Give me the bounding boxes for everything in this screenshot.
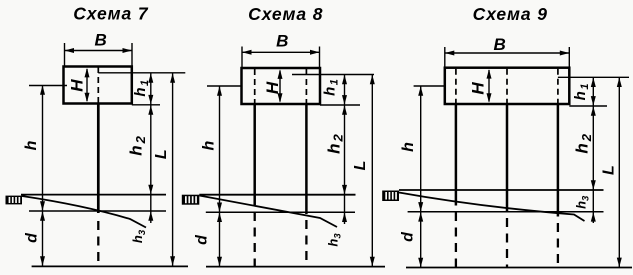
svg-text:h: h	[23, 140, 40, 150]
label h1 (schema 7)	[132, 78, 151, 96]
dimension L (schema 9)	[617, 77, 622, 267]
dimension H arrow (schema 9)	[487, 69, 492, 103]
label L (schema 7)	[153, 149, 170, 159]
svg-text:Н: Н	[263, 81, 282, 94]
label h (schema 9)	[400, 142, 417, 152]
label h3 (schema 8)	[326, 233, 344, 247]
pile head level line (schema 8)	[292, 74, 374, 76]
pile cap box (schema 8)	[242, 68, 321, 104]
left pile axis dashed below ground (schema 9)	[455, 212, 457, 267]
pile tip base line (schema 7)	[32, 265, 188, 267]
pile shaft solid (schema 7)	[97, 104, 100, 214]
dimension B (schema 7) line and arrows	[65, 48, 133, 53]
pile head level line (schema 9)	[558, 76, 629, 78]
dimension h extension line (schema 7)	[29, 85, 67, 87]
right pile axis dashed below ground (schema 9)	[557, 223, 559, 267]
label B (schema 8)	[276, 32, 288, 51]
dimension B (schema 9) extension ticks	[445, 47, 570, 68]
dimension d (schema 8)	[217, 212, 222, 266]
label h2 (schema 9)	[572, 132, 593, 154]
svg-text:В: В	[494, 35, 506, 54]
pile tip base line (schema 9)	[406, 267, 632, 269]
label h (schema 7)	[23, 140, 40, 150]
svg-text:В: В	[94, 31, 106, 50]
left pile axis dashed below ground (schema 8)	[254, 212, 256, 267]
dimension B (schema 7) extension ticks	[65, 43, 133, 67]
svg-text:Н: Н	[469, 82, 488, 95]
pile axis dashed inside box (schema 7)	[97, 67, 99, 103]
dimension h (schema 8)	[217, 86, 222, 212]
dimension h3 arrow (schema 8)	[342, 213, 347, 223]
svg-text:Схема 8: Схема 8	[248, 4, 323, 24]
right pile shaft solid (schema 9)	[557, 104, 560, 217]
label d (schema 8)	[194, 234, 211, 245]
dimension h1 (schema 7)	[148, 73, 153, 105]
label L (schema 8)	[352, 161, 369, 171]
middle pile shaft solid (schema 9)	[506, 104, 509, 212]
dimension h2 (schema 9)	[591, 106, 596, 223]
label d (schema 7)	[23, 232, 40, 243]
svg-text:L: L	[153, 149, 170, 159]
svg-text:L: L	[600, 165, 617, 175]
dimension d (schema 9)	[418, 212, 423, 268]
left pile axis dashed inside box (schema 8)	[254, 69, 256, 104]
pile cap box (schema 9)	[445, 68, 570, 104]
svg-text:Н: Н	[67, 79, 86, 92]
label h1 (schema 8)	[322, 78, 341, 96]
label h3 (schema 9)	[574, 195, 592, 209]
planning datum line (schema 8)	[206, 211, 355, 213]
dimension h2 (schema 8)	[342, 105, 347, 224]
cap bottom extension line (schema 7)	[132, 104, 160, 106]
left pile shaft solid (schema 8)	[253, 104, 256, 205]
label h2 (schema 8)	[324, 132, 345, 154]
label H (schema 9)	[469, 82, 488, 95]
dimension h1 (schema 9)	[591, 77, 596, 106]
svg-text:L: L	[352, 161, 369, 171]
title Схема 7	[73, 4, 149, 24]
dimension L (schema 7)	[170, 73, 175, 266]
label L (schema 9)	[600, 165, 617, 175]
dimension h3 arrow (schema 9)	[591, 212, 596, 222]
dimension B (schema 9) line and arrows	[445, 51, 570, 56]
natural ground slope line (schema 8)	[199, 196, 337, 228]
dimension H arrow (schema 7)	[85, 68, 90, 102]
middle pile axis dashed inside box (schema 9)	[506, 69, 508, 104]
svg-text:d: d	[194, 234, 211, 245]
label B (schema 9)	[494, 35, 506, 54]
dimension h3 arrow (schema 7)	[148, 211, 153, 221]
svg-text:d: d	[23, 232, 40, 243]
left pile axis dashed inside box (schema 9)	[455, 69, 457, 104]
planning datum line (schema 7)	[29, 210, 166, 212]
dimension h (schema 9)	[418, 86, 423, 212]
label H (schema 8)	[263, 81, 282, 94]
dimension L (schema 8)	[370, 75, 375, 267]
svg-text:d: d	[400, 231, 417, 242]
natural ground slope line (schema 7)	[22, 196, 146, 228]
right pile axis dashed below ground (schema 8)	[305, 220, 307, 267]
dimension h extension line (schema 8)	[207, 85, 242, 87]
label h2 (schema 7)	[127, 134, 148, 156]
title Схема 9	[473, 4, 548, 24]
dimension B (schema 8) extension ticks	[242, 47, 320, 69]
label H (schema 7)	[67, 79, 86, 92]
right pile axis dashed inside box (schema 9)	[557, 69, 559, 104]
cap bottom extension line (schema 9)	[569, 105, 607, 107]
label h1 (schema 9)	[572, 82, 591, 100]
svg-text:Схема 9: Схема 9	[473, 4, 548, 24]
label B (schema 7)	[94, 31, 106, 50]
pile axis dashed below ground (schema 7)	[97, 221, 99, 266]
label h (schema 8)	[200, 140, 217, 150]
right pile axis dashed inside box (schema 8)	[305, 69, 307, 104]
dimension d (schema 7)	[40, 211, 45, 266]
ground hatch symbol (schema 8)	[182, 195, 200, 205]
svg-text:h: h	[200, 140, 217, 150]
dimension B (schema 8) line and arrows	[242, 50, 320, 55]
dimension h (schema 7)	[40, 85, 45, 211]
svg-text:Схема 7: Схема 7	[73, 4, 149, 24]
left pile shaft solid (schema 9)	[455, 104, 458, 206]
label h3 (schema 7)	[130, 229, 148, 243]
dimension h2 (schema 7)	[148, 105, 153, 223]
ground level line (schema 9)	[399, 189, 604, 191]
title Схема 8	[248, 4, 323, 24]
pile head level line (schema 7)	[98, 72, 185, 74]
label d (schema 9)	[400, 231, 417, 242]
right pile shaft solid (schema 8)	[305, 104, 308, 214]
planning datum line (schema 9)	[408, 211, 604, 213]
ground level line (schema 7)	[21, 194, 166, 196]
cap bottom extension line (schema 8)	[320, 104, 360, 106]
svg-text:h: h	[400, 142, 417, 152]
svg-text:В: В	[276, 32, 288, 51]
pile tip base line (schema 8)	[206, 266, 385, 268]
dimension H arrow (schema 8)	[278, 69, 283, 102]
ground level line (schema 8)	[199, 194, 355, 196]
middle pile axis dashed below ground (schema 9)	[506, 218, 508, 267]
dimension h1 (schema 8)	[342, 75, 347, 105]
ground hatch symbol (schema 9)	[382, 191, 399, 202]
ground hatch symbol (schema 7)	[6, 196, 23, 205]
natural ground slope line (schema 9)	[399, 193, 585, 222]
dimension h extension line (schema 9)	[414, 85, 445, 87]
pile cap box (schema 7)	[64, 67, 132, 104]
